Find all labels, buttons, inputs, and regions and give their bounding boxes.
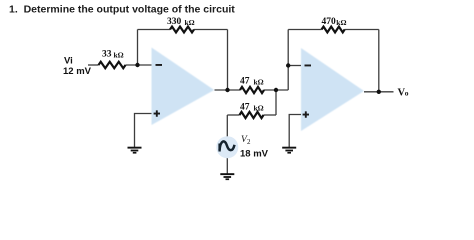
resistor R2 330k zigzag	[170, 27, 194, 33]
op-amp U1 minus sign	[156, 64, 163, 66]
svg-text:12 mV: 12 mV	[63, 66, 92, 77]
wire U2 noninverting input to ground	[289, 115, 301, 148]
wire V2 top stem	[226, 115, 228, 137]
wire feedback2 top right	[345, 29, 379, 31]
op-amp U1 plus sign	[154, 110, 160, 116]
svg-text:Vi: Vi	[64, 56, 73, 67]
wire 47k2 right vertical to node	[275, 90, 277, 115]
op-amp U2	[301, 48, 364, 131]
node C junction dot (summing right)	[274, 88, 278, 92]
svg-text:kΩ: kΩ	[254, 78, 264, 87]
svg-text:1. Determine the output volta: 1. Determine the output voltage of the c…	[9, 4, 235, 16]
svg-text:kΩ: kΩ	[336, 18, 346, 27]
source V2	[216, 136, 238, 158]
wire 47k2 right lead	[264, 114, 277, 116]
wire U1 output	[215, 89, 241, 91]
wire node to U2 inverting input	[288, 65, 301, 67]
svg-text:47: 47	[240, 103, 250, 113]
wire V2 bottom stem	[226, 157, 228, 174]
svg-text:33: 33	[102, 50, 112, 60]
wire feedback1 top right	[194, 29, 228, 31]
svg-text:kΩ: kΩ	[185, 18, 195, 27]
node A junction dot	[135, 63, 139, 67]
wire 33k to U1 inverting input	[126, 64, 152, 66]
wire feedback1 top left	[138, 29, 171, 31]
wire feedback1 left vertical	[137, 30, 139, 66]
node E junction dot (U2 output)	[377, 90, 381, 94]
wire 47k2 left lead	[227, 114, 239, 116]
wire 47k1 to node	[264, 89, 288, 91]
ground G2	[282, 147, 296, 154]
wire feedback2 right vertical	[378, 30, 380, 92]
op-amp U2 plus sign	[303, 111, 309, 117]
svg-text:kΩ: kΩ	[114, 51, 124, 60]
resistor R1 33k zigzag	[99, 62, 126, 68]
svg-text:kΩ: kΩ	[254, 104, 264, 113]
resistor R3 47k upper zigzag	[240, 87, 264, 93]
op-amp U2 minus sign	[305, 65, 312, 67]
svg-text:18 mV: 18 mV	[240, 149, 269, 160]
svg-text:330: 330	[167, 17, 182, 27]
wire U1 noninverting input to ground	[135, 114, 152, 148]
node D junction dot (U2 inverting)	[286, 63, 290, 67]
wire feedback1 right vertical	[227, 30, 229, 91]
ground G1	[128, 147, 142, 154]
wire Vi lead	[88, 64, 99, 66]
node B junction dot (U1 output)	[225, 88, 229, 92]
svg-text:2: 2	[247, 138, 251, 146]
wire summing vertical	[287, 30, 289, 91]
resistor R5 470k zigzag	[322, 27, 345, 33]
op-amp U1	[152, 48, 215, 126]
wire feedback2 top left	[288, 29, 321, 31]
svg-text:o: o	[405, 89, 409, 98]
ground G3	[220, 173, 234, 180]
wire U2 output to Vo	[364, 91, 394, 93]
resistor R4 47k lower zigzag	[240, 112, 264, 118]
svg-text:470: 470	[322, 17, 337, 27]
svg-text:47: 47	[240, 77, 250, 87]
